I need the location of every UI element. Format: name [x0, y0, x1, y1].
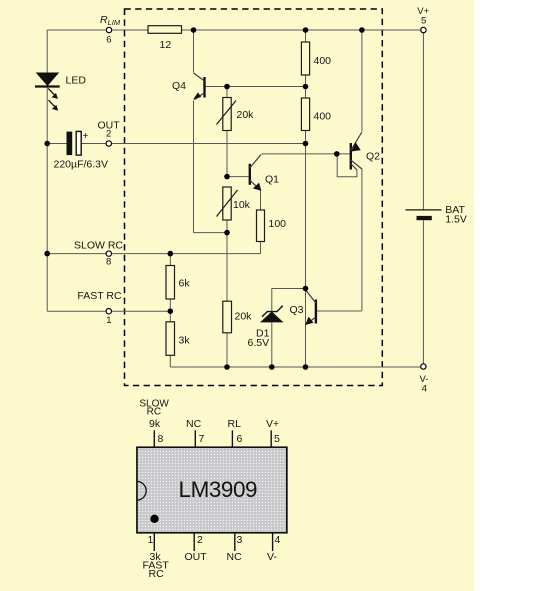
wire Q2 collector2 loop to base — [337, 154, 357, 177]
svg-text:5: 5 — [274, 433, 280, 445]
svg-text:V-: V- — [267, 551, 277, 563]
svg-text:Q2: Q2 — [366, 151, 380, 163]
transistor Q1 — [250, 155, 261, 191]
wire Q1 emitter to R100 — [260, 190, 262, 211]
wire 20k top to Q1 base node — [226, 131, 228, 177]
svg-text:FAST RC: FAST RC — [77, 290, 122, 302]
pin 1 FAST RC terminal — [106, 309, 111, 314]
wire OUT line pin2 into box — [112, 143, 306, 145]
svg-text:RC: RC — [149, 568, 165, 580]
resistor 6k — [166, 266, 175, 300]
svg-text:RL: RL — [228, 418, 242, 430]
wire left vertical (LED / cap branch) — [46, 30, 48, 311]
transistor Q2 (dual collector PNP) — [351, 132, 362, 170]
svg-text:2: 2 — [106, 129, 111, 140]
resistor R 12 — [148, 26, 182, 34]
node dot left vertical / cap — [44, 141, 50, 147]
svg-text:+: + — [83, 131, 89, 142]
svg-text:8: 8 — [158, 433, 164, 445]
IC package LM3909 DIP-8 — [137, 430, 287, 551]
svg-text:6.5V: 6.5V — [248, 337, 270, 349]
pin 6 RLIM terminal — [106, 27, 111, 32]
wire 10k bottom node chain — [226, 220, 228, 301]
node dot FAST RC / 6k-3k — [168, 308, 174, 314]
svg-text:Q3: Q3 — [290, 304, 304, 316]
pin 1 lead — [153, 533, 155, 551]
transistor Q4 — [193, 73, 204, 100]
pin 7 lead — [194, 430, 196, 447]
wire 400b bottom to OUT line — [305, 131, 307, 144]
node dot left vertical / SLOW RC — [44, 251, 50, 257]
pin 4 V- terminal — [421, 364, 426, 369]
node dot top rail Q2 emitter — [359, 27, 365, 33]
svg-text:100: 100 — [269, 218, 287, 230]
wire top rail left of pin 6 — [47, 29, 105, 31]
wire FAST RC left segment — [47, 310, 105, 312]
wire Q4 collector vertical — [193, 30, 195, 73]
wire Q4 emitter to 10k bottom node — [194, 232, 228, 234]
resistor 10k (variable) — [217, 187, 238, 220]
wire R100 bottom to SLOW RC — [260, 242, 262, 254]
LED D (triangle + bar + arrows) — [35, 73, 60, 111]
svg-text:3: 3 — [237, 534, 243, 546]
svg-text:9k: 9k — [149, 418, 161, 430]
wire Q4 emitter vertical — [193, 101, 195, 233]
wire 3k bottom to rail — [169, 355, 171, 367]
svg-text:1: 1 — [106, 315, 111, 326]
node dot OUT line / 400b — [303, 141, 309, 147]
node dot rail Q3 emitter — [303, 364, 309, 370]
wire Q2 collector vertical down — [361, 169, 363, 312]
wire battery top — [422, 33, 424, 210]
wire 6k top stub — [169, 254, 171, 266]
node dot Q3 collector / D1 — [303, 286, 309, 292]
battery BAT 1.5V — [406, 210, 442, 220]
wire 3k top stub — [169, 311, 171, 322]
IC boundary dashed box — [125, 9, 383, 386]
wire 20k top resistor stub — [226, 87, 228, 98]
capacitor 220uF (electrolytic) — [67, 131, 82, 155]
pin 4 lead — [272, 533, 274, 551]
svg-text:7: 7 — [199, 433, 205, 445]
pin 3 lead — [234, 533, 236, 551]
svg-text:RC: RC — [147, 406, 161, 417]
pin 2 OUT terminal — [106, 141, 111, 146]
resistor 3k — [166, 322, 175, 356]
wire Q1 base — [227, 176, 249, 178]
pin circles — [106, 27, 426, 369]
IC pin1 marker dot — [150, 515, 158, 523]
resistor 20k upper (variable) — [217, 98, 237, 131]
pin 2 lead — [193, 533, 195, 551]
pin 8 SLOW RC terminal — [106, 251, 111, 256]
svg-text:220µF/6.3V: 220µF/6.3V — [54, 159, 109, 171]
wire OUT vertical down to bottom rail — [305, 144, 307, 368]
node dot Q4 base / 20k — [224, 84, 230, 90]
node dot Q2 base loop — [334, 151, 340, 157]
wire D1 branch top — [272, 289, 306, 313]
wire Q4 base to 400 divider — [206, 86, 306, 88]
svg-text:6k: 6k — [179, 278, 191, 290]
resistor 20k lower — [223, 301, 232, 333]
svg-text:3k: 3k — [179, 335, 191, 347]
wire cap left to vertical — [47, 143, 66, 145]
transistor Q3 — [305, 291, 316, 326]
svg-text:8: 8 — [106, 257, 111, 268]
resistor 100 — [257, 210, 265, 242]
node dot rail 20k — [224, 364, 230, 370]
resistor 400 upper — [301, 42, 309, 75]
node dot Q1 base / 20k-10k — [224, 174, 230, 180]
resistor 400 lower — [301, 98, 309, 131]
wire SLOW RC left segment — [47, 253, 105, 255]
IC body halftone dots — [138, 448, 286, 532]
pin 8 lead — [153, 430, 155, 447]
node dot SLOW RC / 6k — [168, 251, 174, 257]
svg-text:5: 5 — [421, 15, 426, 26]
wire R12 to V+ — [181, 29, 420, 31]
svg-text:20k: 20k — [237, 109, 255, 121]
node dot rail D1 — [269, 364, 275, 370]
wire 20k bottom to rail — [226, 333, 228, 367]
svg-text:6: 6 — [237, 433, 243, 445]
svg-text:400: 400 — [314, 55, 332, 67]
node dot 400 divider mid — [303, 84, 309, 90]
wire Q1 collector rail to Q2 base — [262, 153, 350, 155]
wire pin6 to R12 — [112, 29, 148, 31]
svg-text:4: 4 — [422, 384, 427, 395]
wire Q2 collector to Q3 base — [317, 310, 362, 312]
svg-text:6: 6 — [106, 35, 111, 46]
pin 5 V+ terminal — [421, 27, 426, 32]
svg-text:SLOW RC: SLOW RC — [74, 240, 123, 252]
svg-text:1.5V: 1.5V — [445, 214, 467, 226]
svg-text:20k: 20k — [235, 311, 253, 323]
wire Q2 emitter vertical to top rail — [361, 30, 363, 132]
pin 6 lead — [231, 430, 233, 447]
wire 400a top stub — [305, 30, 307, 42]
wire FAST RC pin1 to 6k/3k node — [112, 310, 170, 312]
wire battery bottom — [422, 220, 424, 364]
svg-text:LM3909: LM3909 — [179, 477, 258, 502]
svg-text:V+: V+ — [266, 418, 279, 430]
svg-text:10k: 10k — [233, 199, 251, 211]
wire cap right to pin2 — [82, 143, 106, 145]
svg-text:4: 4 — [275, 534, 281, 546]
wire bottom rail — [170, 366, 420, 368]
IC notch — [137, 481, 146, 500]
wire between 400a and 400b — [305, 75, 307, 98]
wire 6k bottom to FAST RC — [169, 299, 171, 311]
svg-text:OUT: OUT — [185, 551, 208, 563]
node dot top rail Q4 — [191, 27, 197, 33]
svg-text:Q4: Q4 — [172, 80, 186, 92]
node dot 10k bottom / Q4 emitter — [224, 230, 230, 236]
pin 5 lead — [270, 430, 272, 447]
svg-text:NC: NC — [186, 418, 202, 430]
diode D1 (zener 6.5V) — [260, 306, 284, 323]
node dot top rail 400 — [303, 27, 309, 33]
svg-text:2: 2 — [197, 534, 203, 546]
wire SLOW RC pin8 to R100 bottom — [112, 253, 261, 255]
svg-text:1: 1 — [148, 534, 154, 546]
svg-text:400: 400 — [314, 111, 332, 123]
svg-text:12: 12 — [160, 39, 172, 51]
svg-text:LED: LED — [66, 75, 87, 87]
IC body — [137, 447, 287, 532]
wire D1 bottom to rail — [271, 322, 273, 367]
svg-text:NC: NC — [227, 551, 243, 563]
svg-text:Q1: Q1 — [265, 174, 279, 186]
